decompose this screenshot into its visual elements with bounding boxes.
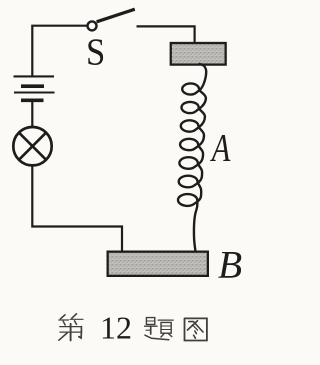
svg-text:12: 12 <box>100 310 132 346</box>
svg-text:B: B <box>218 243 242 287</box>
label A <box>210 126 231 169</box>
wire <box>137 26 195 43</box>
caption char 题 <box>145 318 174 340</box>
wire <box>32 165 122 250</box>
caption char 第 <box>59 314 83 341</box>
block B <box>108 252 208 276</box>
lamp <box>13 127 51 165</box>
spring A <box>178 64 206 251</box>
switch S <box>88 21 97 30</box>
wire <box>32 26 86 76</box>
battery <box>14 76 55 127</box>
label S <box>86 30 105 73</box>
caption char 图 <box>185 318 207 340</box>
support block <box>171 43 226 65</box>
svg-text:A: A <box>210 126 231 169</box>
svg-text:S: S <box>86 30 105 73</box>
